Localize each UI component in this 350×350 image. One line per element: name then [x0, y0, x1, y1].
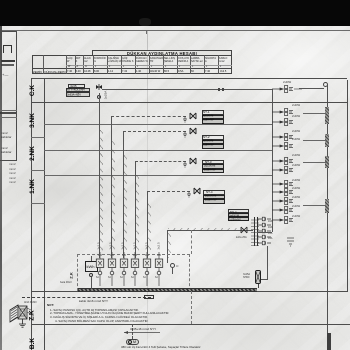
cluster fuse stubs (5 ways): [257, 216, 283, 248]
table title text DUKKAN AYDINLATMA HESABI: [96, 51, 228, 56]
NT-3 cable box: [202, 164, 224, 169]
hatch ticks on NS-1 feed: [168, 228, 248, 231]
value label 2x40W: [292, 205, 300, 208]
junction block 1 on right riser: [325, 107, 329, 124]
NT-1 designator box: [202, 110, 224, 115]
net label 1.NK: [29, 179, 36, 194]
main panel ANA PANO symbol with ground: [8, 300, 38, 330]
dashed enclosure Z.K panel outline: [77, 254, 190, 292]
cluster busbar left rail: [254, 217, 255, 246]
value label 6A: [120, 276, 123, 279]
NT-2 cable box: [202, 140, 224, 145]
breaker unit L3: tap, fuse box, lamp circle, drop to busbar: [119, 252, 129, 286]
inline connector a on C.K bus: [218, 88, 220, 91]
NS-1 designator box: [228, 209, 249, 213]
wire dashed drop to meter M: [132, 324, 133, 339]
tick under top border: [146, 30, 147, 34]
value label 6A: [155, 276, 158, 279]
value label 3x25A: [103, 91, 107, 100]
wire to NH fuse: [261, 279, 268, 280]
lamp tap: arrow + fixture boxes (tap group 1.NK b): [272, 164, 302, 176]
wire bell drop: [172, 268, 175, 274]
value label 6A: [96, 276, 99, 279]
meter designator M: [133, 340, 136, 344]
row rule y102: [31, 102, 347, 103]
fuse NH00 body: [255, 270, 261, 284]
note text 380 volt three phase: [121, 345, 201, 349]
bell transformer circle: [170, 263, 175, 268]
wire riser 3: [123, 131, 124, 258]
legend symbol: [3, 45, 12, 53]
wire 2.NK bus: [44, 150, 272, 151]
top black scanner bar: [0, 0, 350, 26]
junction block 2 on right riser: [325, 134, 329, 147]
kWh meter box: [85, 261, 98, 272]
cable label 3x2.5 (rotated): [157, 242, 161, 249]
page top border: [2, 30, 350, 31]
value label bara 30x3: [60, 281, 72, 284]
right riser service entry (thick): [327, 333, 331, 350]
value label 2x40W: [292, 179, 300, 182]
value label 6A: [143, 276, 146, 279]
wire linye NT-1 dashed: [111, 116, 186, 117]
breaker unit L5: tap, fuse box, lamp circle, drop to busbar: [142, 252, 152, 286]
junction block 3 on right riser: [325, 156, 329, 168]
lamp tap: arrow + fixture boxes (tap group 2.NK a): [272, 131, 302, 143]
fuse rating label 3x63A: [66, 92, 90, 97]
NT-3 designator box: [202, 160, 224, 165]
meter M dial circle: [128, 340, 132, 344]
wire distribution feeder vertical: [272, 89, 273, 232]
breaker unit L2: tap, fuse box, lamp circle, drop to busbar: [107, 252, 117, 286]
wire right riser busbar: [327, 84, 328, 350]
cable label 3x2.5 (rotated): [97, 242, 101, 249]
ground symbol + fuse for circuit NT-2: [180, 125, 222, 139]
ground symbol + fuse for circuit NT-1: [180, 110, 222, 124]
lamp tap: arrow + fixture boxes (tap group 1.NK a): [272, 155, 302, 167]
label zil: [176, 265, 178, 268]
net label 2.NK: [29, 146, 36, 161]
value label 2x40W: [292, 154, 300, 157]
value label kofra 25A: [236, 236, 247, 239]
lamp tap: arrow + fixture boxes (tap group 3.NK a): [272, 106, 302, 118]
value label 3x35+16 mm2 NYY: [130, 327, 156, 331]
cable label stack C.K: [68, 84, 85, 88]
wire riser 6 NS drop: [167, 230, 168, 263]
wire linye NT-4 dashed: [147, 191, 190, 192]
label ANA PANO: [24, 301, 37, 304]
node label Z.K at enclosure: [69, 272, 74, 278]
inline connector b on C.K bus: [222, 88, 224, 91]
wire feeder to cluster: [257, 232, 272, 233]
meter M body: [126, 339, 139, 346]
table header/data separator: [32, 68, 232, 69]
lamp tap: arrow + fixture boxes (tap group NS fan 2): [272, 186, 302, 198]
value label 2x40W: [292, 215, 300, 218]
legend divider: [0, 110, 17, 111]
value label 2x40W: [292, 187, 300, 190]
net label Z.K: [29, 310, 36, 320]
hatch ticks on riser 4: [136, 175, 139, 255]
value label 2x40W: [292, 104, 300, 107]
cable label 3x2.5 (rotated): [109, 242, 113, 249]
wire NH fuse tail: [258, 284, 259, 288]
NT-4 cable box: [203, 195, 225, 200]
kWh meter terminal circle: [89, 273, 93, 277]
junction box on service feed: [144, 295, 154, 300]
value label 3x25A NH00: [243, 273, 250, 279]
cable label 3x2.5 (rotated): [133, 242, 137, 249]
lamp tap: arrow + fixture boxes (C.K lighting group y88): [272, 83, 302, 95]
NT-2 rating box: [202, 144, 224, 149]
table title bar: [92, 50, 232, 56]
right page border: [347, 80, 348, 292]
wire kWh meter top lead: [91, 256, 92, 261]
wire riser 5: [147, 191, 148, 258]
value label 2x40W: [292, 115, 300, 118]
row rule y323 B.K top: [31, 324, 350, 325]
wire dashed drop x190 upper: [191, 230, 192, 254]
value label 2x40W: [292, 130, 300, 133]
NT-4 designator box: [203, 190, 225, 195]
hatch ticks on riser 6: [168, 232, 171, 258]
NT-1 rating box: [202, 119, 224, 124]
wire 3.NK bus: [44, 124, 272, 125]
wire 1.NK bus: [44, 175, 272, 176]
lamp tap: arrow + fixture boxes (tap group NS fan 3): [272, 195, 302, 207]
ground busbar (hatched): [78, 288, 257, 292]
hatch ticks on riser 1: [100, 130, 103, 255]
wire stub to riser block 4: [303, 205, 326, 206]
lamp tap: arrow + fixture boxes (tap group NS fan 5): [272, 214, 302, 226]
node circle at top of right riser: [323, 82, 328, 87]
wire C.K bus to riser circle: [299, 88, 324, 89]
node circle under C.K fuse: [97, 95, 101, 99]
value labels 16A fuses: [268, 219, 272, 242]
junction block 4 on right riser: [325, 199, 329, 213]
legend box: [0, 31, 17, 161]
NS-1 cable box: [228, 213, 249, 217]
legend text lines: [1, 60, 15, 62]
dimension arrow line for service cable: [124, 330, 162, 335]
NT-2 designator box: [202, 135, 224, 140]
cable label 3x2.5 (rotated): [145, 242, 149, 249]
wire NS-1 feed to cluster: [168, 230, 253, 231]
fuse C.K main (bowtie): [94, 84, 106, 96]
breaker unit L4: tap, fuse box, lamp circle, drop to busbar: [130, 252, 140, 286]
lamp tap: arrow + fixture boxes (tap group NS fan 4): [272, 204, 302, 216]
wire service feed from panel (heavy dashed): [22, 297, 151, 298]
wire cluster drop: [267, 246, 268, 279]
breaker unit L6: tap, fuse box, lamp circle, drop to busbar: [154, 252, 164, 286]
wire riser 2: [111, 116, 112, 258]
lamp tap: arrow + fixture boxes (tap group 3.NK b): [272, 116, 302, 128]
hatch ticks on riser 2: [112, 140, 115, 255]
value label kablo 4x16 mm2 NYY: [79, 299, 108, 303]
paper fold crease: [147, 30, 148, 350]
hatch ticks on riser 5: [148, 200, 151, 255]
net label 3.NK: [29, 113, 36, 128]
table units sub-rule: [66, 64, 232, 67]
value label 2x40W: [292, 164, 300, 167]
table body frame: [32, 55, 232, 74]
lamp tap: arrow + fixture boxes (tap group NS fan 1): [272, 178, 302, 190]
table data row values: [33, 70, 42, 74]
net label C.K (kolon hatti): [29, 85, 36, 96]
band cell separators: [31, 137, 45, 138]
breaker unit L1: tap, fuse box, lamp circle, drop to busbar: [95, 252, 105, 286]
ground bars symbol near riser: [285, 236, 297, 248]
NT-3 rating box: [202, 169, 224, 174]
NS-1 rating box: [228, 217, 249, 221]
value label 2x40W: [292, 138, 300, 141]
value label 6A: [108, 276, 111, 279]
fuse kofra on NS-1 feed: [239, 225, 251, 237]
wire stub to riser block 2: [303, 140, 326, 141]
wire linye NT-2 dashed: [123, 131, 186, 132]
table column header labels: [67, 57, 73, 63]
NT-4 rating box: [203, 199, 225, 204]
row rule y291 Z.K top: [31, 291, 347, 292]
wire linye NT-3 dashed: [135, 161, 186, 162]
cable label 3x2.5 (rotated): [121, 242, 125, 249]
label band right rule: [44, 78, 45, 350]
value label 6A: [131, 276, 134, 279]
ground symbol + fuse for circuit NT-4: [184, 185, 226, 199]
value label 4x35: [70, 84, 77, 88]
wire riser 1 from C.K fuse: [99, 93, 100, 258]
small text under legend box: [9, 162, 16, 185]
table column gridlines: [42, 55, 45, 74]
lamp tap: arrow + fixture boxes (tap group 2.NK b): [272, 140, 302, 152]
label band left rule: [31, 78, 32, 350]
notes heading NOT:: [47, 303, 54, 307]
wire kWh meter to busbar: [91, 277, 92, 289]
value label 2x40W: [292, 196, 300, 199]
net label B.K: [29, 338, 36, 349]
ground symbol + fuse for circuit NT-3: [180, 155, 222, 169]
NT-1 cable box: [202, 115, 224, 120]
wire riser 4: [135, 161, 136, 258]
wire stub to riser block 3: [303, 162, 326, 163]
row rule y78 C.K top: [31, 78, 347, 79]
fuse NH00 element X: [255, 270, 261, 284]
left scan edge: [0, 26, 2, 350]
cluster busbar right rail: [257, 217, 258, 246]
hatch ticks on riser 3: [124, 150, 127, 255]
wire C.K bus: [102, 89, 272, 90]
wire dashed drop x190: [191, 291, 192, 324]
cable label NYY kolon: [66, 88, 90, 93]
wire stub to riser block 1: [303, 113, 326, 114]
